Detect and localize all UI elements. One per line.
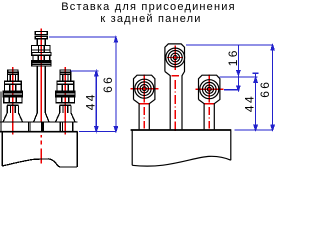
svg-text:44: 44 bbox=[84, 92, 98, 110]
svg-text:66: 66 bbox=[101, 75, 115, 93]
svg-text:16: 16 bbox=[226, 48, 240, 66]
svg-text:Вставка для присоединения: Вставка для присоединения bbox=[61, 1, 236, 13]
svg-text:66: 66 bbox=[258, 80, 272, 98]
svg-text:к задней панели: к задней панели bbox=[100, 13, 201, 25]
svg-text:44: 44 bbox=[242, 94, 256, 112]
